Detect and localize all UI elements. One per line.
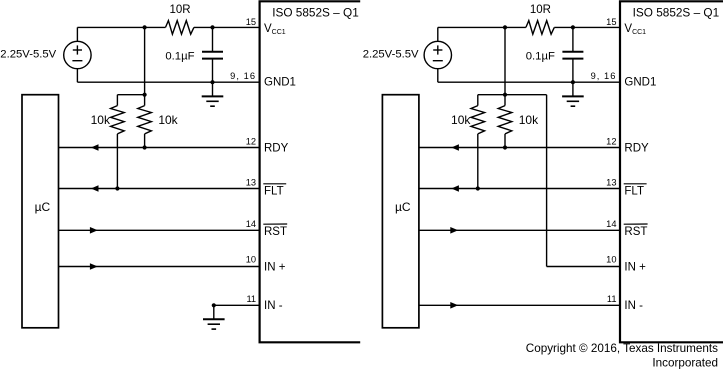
svg-text:11: 11 — [246, 294, 256, 304]
svg-text:11: 11 — [607, 294, 617, 304]
svg-text:IN -: IN - — [264, 300, 283, 312]
svg-text:10k: 10k — [158, 113, 178, 127]
svg-text:ISO 5852S – Q1: ISO 5852S – Q1 — [272, 5, 359, 19]
svg-text:10: 10 — [606, 255, 616, 265]
svg-text:15: 15 — [246, 17, 256, 27]
svg-text:GND1: GND1 — [264, 76, 296, 88]
svg-text:IN +: IN + — [624, 261, 646, 273]
svg-text:10k: 10k — [451, 113, 471, 127]
svg-text:12: 12 — [606, 136, 616, 146]
svg-text:IN -: IN - — [624, 300, 643, 312]
svg-text:IN +: IN + — [264, 261, 286, 273]
svg-text:13: 13 — [606, 177, 616, 187]
svg-text:10: 10 — [246, 255, 256, 265]
svg-text:µC: µC — [35, 200, 51, 214]
svg-text:9, 16: 9, 16 — [230, 71, 256, 81]
svg-text:ISO 5852S – Q1: ISO 5852S – Q1 — [633, 5, 720, 19]
svg-text:FLT: FLT — [264, 186, 284, 198]
svg-text:RST: RST — [264, 226, 287, 238]
svg-text:µC: µC — [395, 200, 411, 214]
svg-text:12: 12 — [246, 136, 256, 146]
svg-text:0.1µF: 0.1µF — [526, 51, 555, 63]
svg-text:0.1µF: 0.1µF — [165, 51, 194, 63]
svg-text:10R: 10R — [530, 4, 551, 16]
svg-text:2.25V-5.5V: 2.25V-5.5V — [363, 49, 419, 61]
svg-text:Copyright © 2016, Texas Instru: Copyright © 2016, Texas Instruments — [526, 342, 718, 355]
svg-text:14: 14 — [246, 219, 256, 229]
svg-text:RDY: RDY — [624, 143, 649, 155]
svg-text:10k: 10k — [91, 113, 111, 127]
svg-text:2.25V-5.5V: 2.25V-5.5V — [0, 49, 56, 61]
svg-text:10R: 10R — [169, 4, 190, 16]
svg-text:FLT: FLT — [624, 186, 644, 198]
svg-text:9, 16: 9, 16 — [591, 71, 617, 81]
svg-text:15: 15 — [606, 17, 616, 27]
svg-text:GND1: GND1 — [624, 76, 656, 88]
svg-text:13: 13 — [246, 177, 256, 187]
svg-text:14: 14 — [606, 219, 616, 229]
svg-text:Incorporated: Incorporated — [652, 356, 718, 369]
svg-text:RST: RST — [624, 226, 647, 238]
svg-text:10k: 10k — [519, 113, 539, 127]
svg-text:RDY: RDY — [264, 143, 289, 155]
